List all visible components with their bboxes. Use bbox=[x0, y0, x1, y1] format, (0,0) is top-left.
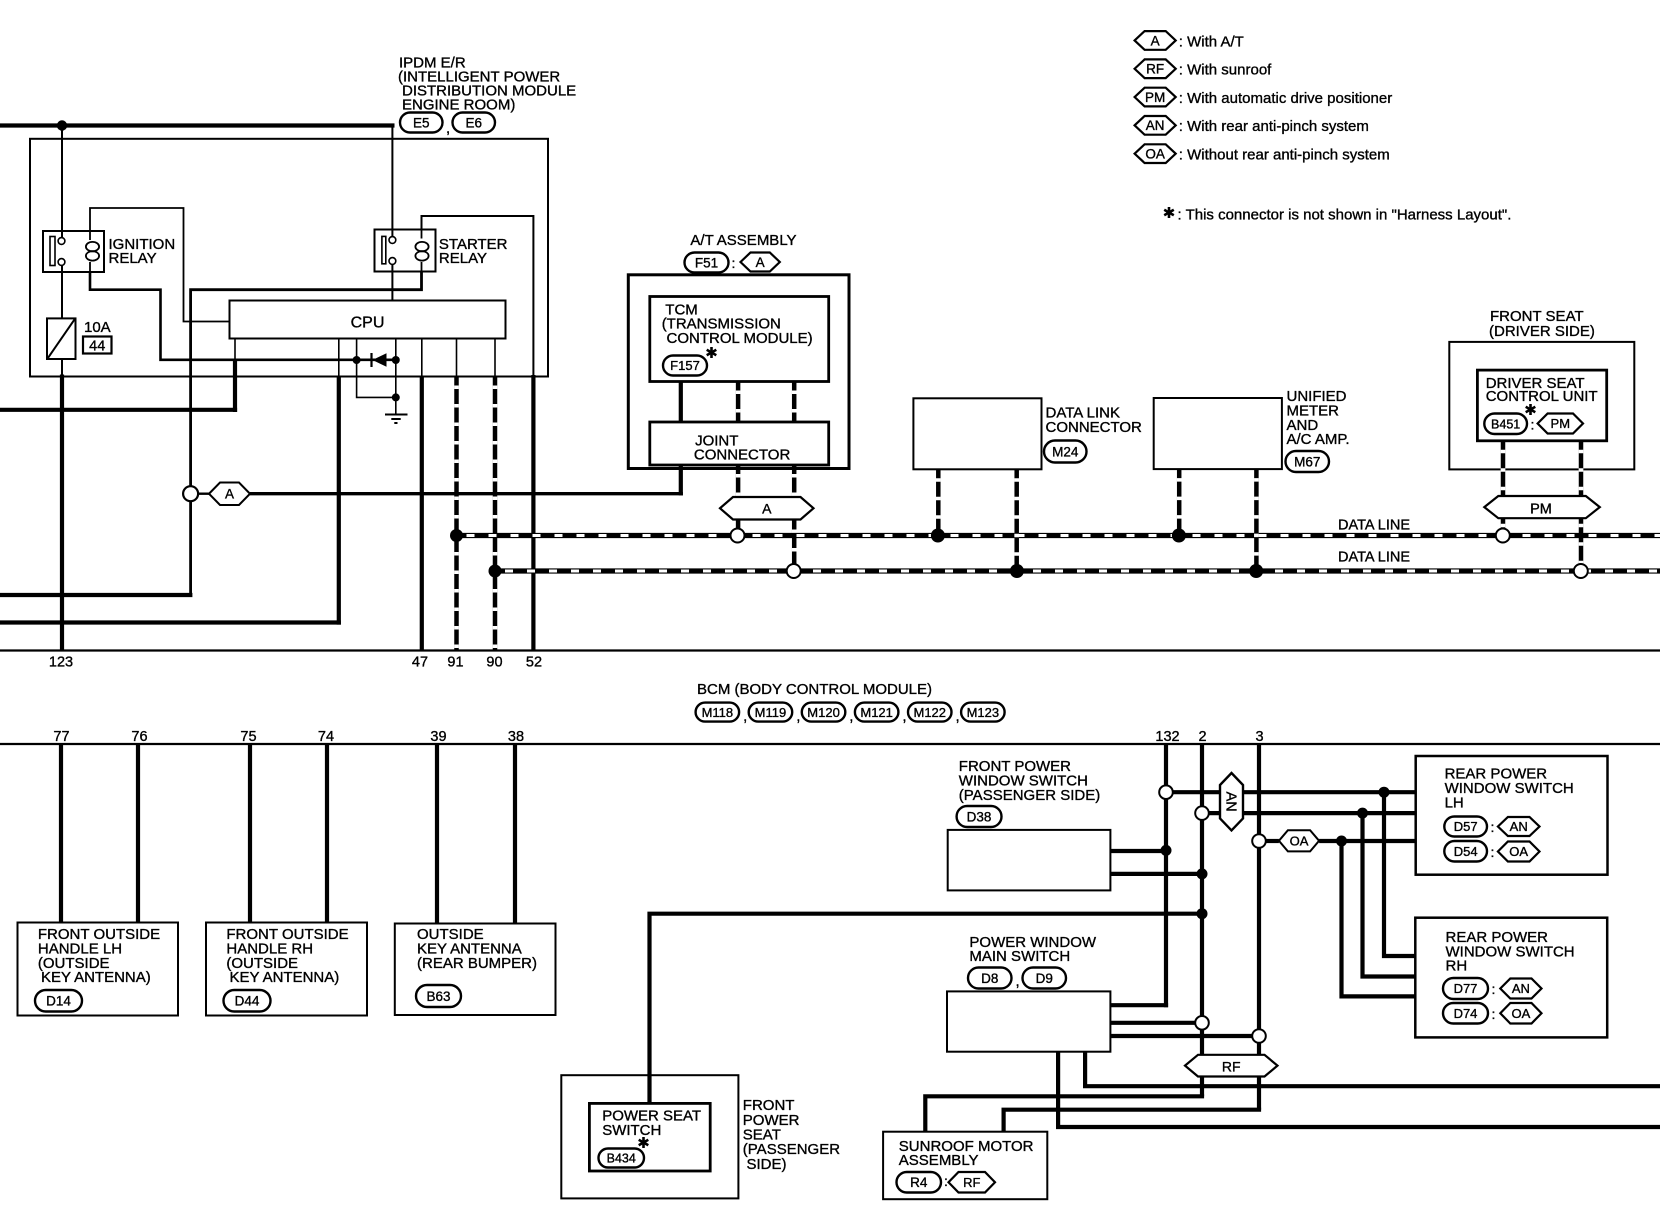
svg-text:D57: D57 bbox=[1454, 819, 1478, 834]
svg-text:3: 3 bbox=[1255, 729, 1263, 745]
svg-text:OA: OA bbox=[1509, 844, 1528, 859]
svg-text:KEY ANTENNA): KEY ANTENNA) bbox=[41, 969, 151, 986]
svg-text:: With sunroof: : With sunroof bbox=[1179, 62, 1272, 79]
svg-text:ENGINE ROOM): ENGINE ROOM) bbox=[402, 97, 515, 114]
svg-text:CONTROL UNIT: CONTROL UNIT bbox=[1486, 388, 1598, 405]
svg-text:F51: F51 bbox=[695, 255, 718, 270]
svg-text:(PASSENGER SIDE): (PASSENGER SIDE) bbox=[959, 787, 1100, 804]
svg-text:D44: D44 bbox=[235, 994, 260, 1009]
svg-text:DATA LINE: DATA LINE bbox=[1338, 550, 1410, 566]
svg-text:D14: D14 bbox=[46, 994, 71, 1009]
svg-text:CONNECTOR: CONNECTOR bbox=[694, 447, 791, 464]
svg-text::: : bbox=[1531, 417, 1535, 433]
svg-text:B451: B451 bbox=[1491, 417, 1520, 431]
svg-text:38: 38 bbox=[508, 729, 524, 745]
svg-text::: : bbox=[1492, 981, 1496, 997]
svg-text:E6: E6 bbox=[465, 115, 482, 130]
svg-text:: Without rear anti-pinch syst: : Without rear anti-pinch system bbox=[1179, 147, 1390, 164]
svg-text:A/T ASSEMBLY: A/T ASSEMBLY bbox=[690, 232, 796, 249]
svg-text:D74: D74 bbox=[1454, 1006, 1478, 1021]
svg-text:KEY ANTENNA): KEY ANTENNA) bbox=[230, 969, 340, 986]
svg-text:B63: B63 bbox=[426, 989, 450, 1004]
svg-text:74: 74 bbox=[318, 729, 334, 745]
svg-text:RELAY: RELAY bbox=[109, 250, 157, 267]
svg-text:: With automatic drive positio: : With automatic drive positioner bbox=[1179, 90, 1392, 107]
svg-text:,: , bbox=[956, 708, 960, 725]
svg-text:M119: M119 bbox=[755, 705, 787, 720]
svg-text:,: , bbox=[796, 708, 800, 725]
svg-text:,: , bbox=[446, 120, 450, 137]
svg-text::: : bbox=[944, 1173, 948, 1189]
svg-text:CONTROL MODULE): CONTROL MODULE) bbox=[667, 330, 813, 347]
svg-text:AN: AN bbox=[1512, 981, 1530, 996]
svg-text:OA: OA bbox=[1145, 147, 1165, 162]
svg-text:PM: PM bbox=[1145, 90, 1165, 105]
svg-text:RF: RF bbox=[1146, 62, 1164, 77]
svg-text:A: A bbox=[762, 501, 772, 517]
svg-text:D9: D9 bbox=[1036, 971, 1053, 986]
svg-text:132: 132 bbox=[1155, 729, 1179, 745]
svg-text:RELAY: RELAY bbox=[439, 250, 487, 267]
svg-text:D77: D77 bbox=[1454, 981, 1478, 996]
svg-text:AN: AN bbox=[1510, 819, 1528, 834]
svg-text:LH: LH bbox=[1445, 794, 1464, 811]
svg-text:F157: F157 bbox=[670, 358, 700, 373]
svg-text:44: 44 bbox=[89, 338, 105, 354]
svg-text:(REAR BUMPER): (REAR BUMPER) bbox=[417, 955, 537, 972]
svg-text:10A: 10A bbox=[84, 319, 111, 336]
svg-text:E5: E5 bbox=[413, 115, 430, 130]
svg-text:77: 77 bbox=[53, 729, 69, 745]
svg-text:OA: OA bbox=[1290, 833, 1309, 848]
svg-text:D8: D8 bbox=[981, 971, 998, 986]
svg-text:WINDOW SWITCH: WINDOW SWITCH bbox=[1445, 780, 1574, 797]
svg-text:52: 52 bbox=[526, 655, 542, 671]
svg-text:90: 90 bbox=[486, 655, 502, 671]
svg-text:CONNECTOR: CONNECTOR bbox=[1046, 419, 1143, 436]
svg-text:RF: RF bbox=[963, 1175, 980, 1190]
svg-text:CPU: CPU bbox=[351, 314, 385, 331]
svg-text::: : bbox=[1491, 844, 1495, 860]
svg-text:RH: RH bbox=[1446, 958, 1468, 975]
svg-text:M118: M118 bbox=[702, 705, 734, 720]
svg-text:DATA LINE: DATA LINE bbox=[1338, 518, 1410, 534]
svg-text:D54: D54 bbox=[1454, 844, 1478, 859]
svg-text:SWITCH: SWITCH bbox=[602, 1122, 661, 1139]
svg-text:B434: B434 bbox=[607, 1152, 636, 1166]
svg-text:: This connector is not shown: : This connector is not shown in "Harnes… bbox=[1178, 207, 1512, 224]
svg-text:2: 2 bbox=[1198, 729, 1206, 745]
svg-text:M121: M121 bbox=[860, 705, 893, 720]
svg-text:,: , bbox=[1016, 973, 1020, 990]
svg-text:: With A/T: : With A/T bbox=[1179, 33, 1244, 50]
svg-text::: : bbox=[1492, 1006, 1496, 1022]
svg-text:PM: PM bbox=[1551, 416, 1571, 431]
svg-text:A/C AMP.: A/C AMP. bbox=[1287, 431, 1350, 448]
svg-text:MAIN SWITCH: MAIN SWITCH bbox=[969, 948, 1070, 965]
svg-text:,: , bbox=[902, 708, 906, 725]
svg-text:M67: M67 bbox=[1294, 454, 1320, 469]
svg-text:A: A bbox=[225, 487, 234, 502]
svg-text:M123: M123 bbox=[967, 705, 1000, 720]
svg-text:M122: M122 bbox=[913, 705, 946, 720]
svg-text:91: 91 bbox=[447, 655, 463, 671]
svg-text:PM: PM bbox=[1530, 502, 1552, 518]
svg-text:M120: M120 bbox=[807, 705, 840, 720]
svg-text:OA: OA bbox=[1512, 1006, 1531, 1021]
svg-text:75: 75 bbox=[240, 729, 256, 745]
svg-text:AN: AN bbox=[1222, 792, 1238, 812]
svg-text:R4: R4 bbox=[910, 1175, 928, 1190]
svg-text:AN: AN bbox=[1146, 118, 1165, 133]
svg-text:47: 47 bbox=[412, 655, 428, 671]
svg-text:D38: D38 bbox=[967, 809, 992, 824]
svg-text:M24: M24 bbox=[1052, 444, 1079, 459]
svg-text:A: A bbox=[756, 255, 765, 270]
svg-text:BCM (BODY CONTROL MODULE): BCM (BODY CONTROL MODULE) bbox=[697, 681, 932, 698]
svg-text:,: , bbox=[743, 708, 747, 725]
svg-text:76: 76 bbox=[131, 729, 147, 745]
svg-text::: : bbox=[732, 255, 736, 271]
svg-text:,: , bbox=[849, 708, 853, 725]
svg-text:(DRIVER SIDE): (DRIVER SIDE) bbox=[1489, 323, 1595, 340]
svg-text:123: 123 bbox=[49, 655, 73, 671]
svg-text:ASSEMBLY: ASSEMBLY bbox=[899, 1152, 979, 1169]
svg-text:A: A bbox=[1151, 33, 1160, 48]
svg-text:: With rear anti-pinch system: : With rear anti-pinch system bbox=[1179, 118, 1369, 135]
svg-text:SIDE): SIDE) bbox=[747, 1156, 787, 1173]
svg-text::: : bbox=[1491, 819, 1495, 835]
svg-text:RF: RF bbox=[1222, 1058, 1241, 1074]
svg-text:39: 39 bbox=[430, 729, 446, 745]
